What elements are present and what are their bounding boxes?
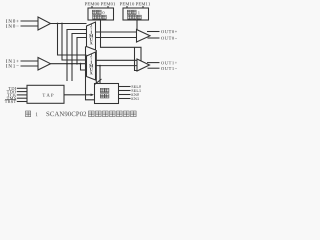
block U6 channel-1 pre-emphasis xyxy=(123,8,149,20)
pin label IN0- xyxy=(6,24,19,27)
wire scan tail b xyxy=(71,64,73,81)
wire TMS xyxy=(17,97,27,99)
pin label TRST xyxy=(5,100,16,103)
mux M2 2:1 MUX channel 1 xyxy=(87,52,96,80)
pin label PEM00 xyxy=(85,2,99,5)
node J2 xyxy=(61,23,63,25)
wire IN1 to mux1 input c xyxy=(77,38,87,64)
wire SEL1 xyxy=(119,90,131,92)
wire IN1 to mux1 input a xyxy=(67,30,87,64)
wire OUT1- xyxy=(148,67,160,69)
overline on TRST xyxy=(5,99,16,101)
wire mux2 out - xyxy=(96,65,138,67)
wire PEM01 tick xyxy=(107,6,109,8)
wire OUT0- xyxy=(148,37,160,39)
node J4 xyxy=(66,63,68,65)
node J8 xyxy=(80,63,82,65)
input buffer U1 (IN0) xyxy=(38,17,51,30)
wire TAP to control logic xyxy=(64,94,93,96)
pin label TDO xyxy=(7,90,16,93)
wire mux2 select to control xyxy=(99,66,101,84)
wire TDI xyxy=(17,87,27,89)
node J7 xyxy=(99,65,101,67)
wire IN1 to mux1 input b xyxy=(72,34,87,64)
wire PEM00 tick xyxy=(91,6,93,8)
output driver U4 (OUT1) xyxy=(137,59,150,71)
pin label OUT0+ xyxy=(161,30,177,33)
pin label OUT0- xyxy=(161,37,177,40)
wire OUT0+ xyxy=(147,31,160,33)
wire EN1 xyxy=(119,98,131,100)
wire box B to driver0 top xyxy=(136,20,138,30)
wire mux2 out + xyxy=(96,59,138,61)
wire mux1 select to control xyxy=(95,50,97,84)
wire buffer1 output xyxy=(51,63,87,65)
pin label PEM10 xyxy=(120,2,134,5)
wire IN0+ xyxy=(21,20,39,22)
wire TCK xyxy=(17,94,27,96)
wire IN1- xyxy=(21,65,39,67)
pin label IN1- xyxy=(6,64,19,67)
pin label TCK xyxy=(7,94,16,97)
wire TDO xyxy=(17,91,27,93)
wire PEM10 tick xyxy=(126,6,128,8)
wire IN0 to mux2 input a xyxy=(58,24,87,56)
pin label IN0+ xyxy=(6,19,19,22)
pin label TMS xyxy=(7,97,16,100)
pin label OUT1+ xyxy=(161,61,177,64)
wire IN1 to mux2 stub xyxy=(81,64,87,70)
bus slash mark xyxy=(95,79,102,84)
pin label SEL1 xyxy=(132,89,141,92)
wire IN0- xyxy=(21,25,39,27)
block U5 channel-0 pre-emphasis xyxy=(88,8,114,20)
pin label TDI xyxy=(8,87,16,90)
wire EN0 xyxy=(119,94,131,96)
node J1 xyxy=(57,23,59,25)
wire pre-emphasis ch1 net xyxy=(135,47,138,70)
pin label EN0 xyxy=(131,93,138,96)
pin label IN1+ xyxy=(6,59,19,62)
block TAP controller xyxy=(27,85,64,103)
wire scan tail a xyxy=(66,64,68,81)
caption: figure 1 SCAN90CP02 internal structure xyxy=(26,111,137,117)
wire IN0 to mux2 input b xyxy=(62,24,87,61)
node J6 xyxy=(76,63,78,65)
input buffer U2 (IN1) xyxy=(38,58,51,71)
pin label SEL0 xyxy=(132,85,141,88)
wire PEM11 tick xyxy=(142,6,144,8)
pin label PEM01 xyxy=(101,2,115,5)
pin label PEM11 xyxy=(136,2,150,5)
wire pre-emphasis ch0 net xyxy=(101,20,142,61)
block U7 control logic xyxy=(95,84,119,104)
wire IN1+ xyxy=(21,60,39,62)
wire OUT1+ xyxy=(147,62,160,64)
wire mux1 out + xyxy=(96,31,137,33)
wire mux1 body to control logic xyxy=(86,47,95,100)
wire buffer0 output xyxy=(51,23,87,25)
node J5 xyxy=(71,63,73,65)
wire TRST xyxy=(17,101,27,103)
wire SEL0 xyxy=(119,86,131,88)
mux M1 2:1 MUX channel 0 xyxy=(87,22,96,50)
output driver U3 (OUT0) xyxy=(137,30,151,43)
pin label OUT1- xyxy=(161,67,177,70)
wire mux1 out - xyxy=(96,37,137,39)
pin label EN1 xyxy=(131,97,138,100)
